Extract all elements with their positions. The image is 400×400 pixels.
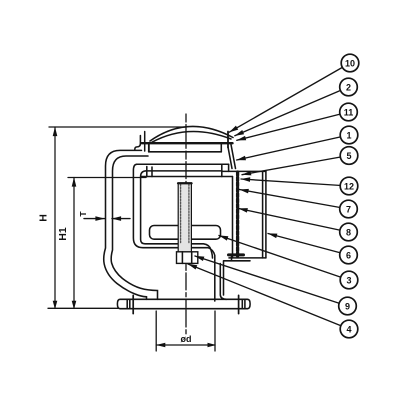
dome outer arc [150, 126, 233, 141]
casing support bracket [224, 256, 251, 295]
seat ring lower line [141, 176, 232, 178]
svg-text:1: 1 [346, 130, 351, 140]
dimension T left arrow [84, 218, 105, 220]
svg-text:7: 7 [346, 204, 351, 214]
leader 3 [219, 236, 349, 281]
svg-text:11: 11 [344, 107, 354, 117]
leader 6 [268, 234, 349, 256]
svg-text:8: 8 [346, 227, 351, 237]
seat ring top line [137, 163, 229, 165]
right clamp bolt [227, 132, 229, 148]
od extension line left [155, 311, 157, 351]
right flange bolt [242, 299, 245, 308]
svg-text:5: 5 [346, 151, 351, 161]
H extension line top [49, 126, 186, 128]
svg-text:2: 2 [346, 82, 351, 92]
seat right step ticks [222, 164, 229, 176]
dimension H1 line [73, 178, 75, 309]
balloon 2 [340, 78, 358, 96]
valve stem rod [178, 183, 191, 252]
left flange bolt [127, 299, 130, 308]
svg-text:6: 6 [346, 250, 351, 260]
leader 11 [237, 112, 349, 140]
body inner wall (left limb S-bend) [111, 156, 157, 299]
balloon 6 [340, 246, 358, 264]
chamber right wall [232, 177, 234, 258]
casing bottom line [229, 257, 266, 259]
H1 extension line top [68, 177, 146, 179]
leader 9 [195, 256, 348, 306]
rod top cap [178, 182, 192, 184]
balloon 8 [340, 223, 358, 241]
balloon 3 [340, 271, 358, 289]
chamber left inner wall [141, 171, 213, 258]
leader 12 [241, 179, 349, 186]
base flange plate [117, 299, 250, 308]
dimension od line [156, 344, 215, 346]
balloon 12 [340, 177, 358, 195]
rod edge stipple [181, 184, 189, 243]
cover plate right edge [220, 143, 222, 152]
svg-text:3: 3 [346, 275, 351, 285]
bottom extension line [48, 307, 118, 309]
seat left step ticks [147, 167, 152, 177]
svg-text:4: 4 [346, 324, 351, 334]
wire gauze dashed lines [236, 172, 239, 256]
leader 10 [229, 63, 350, 132]
od extension line right [214, 311, 216, 351]
svg-text:T: T [78, 211, 88, 217]
balloon 11 [340, 103, 358, 121]
casing top line [222, 170, 266, 172]
leader 8 [239, 209, 349, 233]
leader 2 [235, 87, 349, 136]
svg-text:ød: ød [181, 334, 192, 344]
dimension T right arrow [112, 218, 130, 220]
balloon 1 [340, 126, 358, 144]
casing outer wall double [263, 171, 266, 258]
cover plate bottom [149, 151, 222, 153]
left clip right edge [148, 144, 150, 152]
left clip bolt [144, 132, 146, 152]
float disc [150, 226, 221, 240]
nut facet lines [182, 252, 191, 264]
svg-text:12: 12 [344, 181, 354, 191]
dome inner arc [152, 131, 231, 142]
svg-text:10: 10 [345, 58, 355, 68]
svg-text:9: 9 [345, 301, 350, 311]
leader 1 [237, 135, 349, 160]
balloon 9 [339, 297, 357, 315]
balloon 4 [340, 320, 358, 338]
balloon 7 [340, 200, 358, 218]
svg-text:H1: H1 [57, 227, 69, 241]
balloon 5 [340, 147, 358, 165]
right swing bolt sloped [228, 145, 236, 169]
leader 4 [188, 264, 349, 329]
svg-text:H: H [38, 214, 50, 222]
seat ring mid line [146, 170, 222, 172]
cover plate thick top [142, 142, 233, 144]
cover plate left edge [148, 143, 150, 152]
leader 7 [240, 190, 349, 210]
leader 5 [242, 156, 349, 175]
gauze bottom foot bar [229, 253, 244, 256]
left clip hook [135, 136, 141, 150]
dimension H line [54, 127, 56, 308]
nut below chamber [177, 252, 198, 264]
chamber left outer wall [133, 164, 214, 301]
balloon 10 [341, 54, 359, 72]
centerline [185, 114, 187, 336]
body right wall into flange [220, 264, 226, 300]
body outer wall (left limb S-bend) [104, 150, 147, 299]
